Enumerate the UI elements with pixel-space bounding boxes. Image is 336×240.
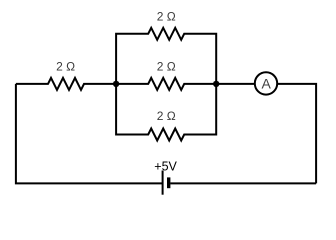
svg-text:2 Ω: 2 Ω [157, 109, 176, 123]
svg-text:2 Ω: 2 Ω [157, 9, 176, 23]
svg-text:2 Ω: 2 Ω [56, 59, 75, 73]
svg-text:2 Ω: 2 Ω [157, 59, 176, 73]
svg-text:+5V: +5V [154, 160, 177, 174]
svg-text:A: A [262, 75, 272, 91]
